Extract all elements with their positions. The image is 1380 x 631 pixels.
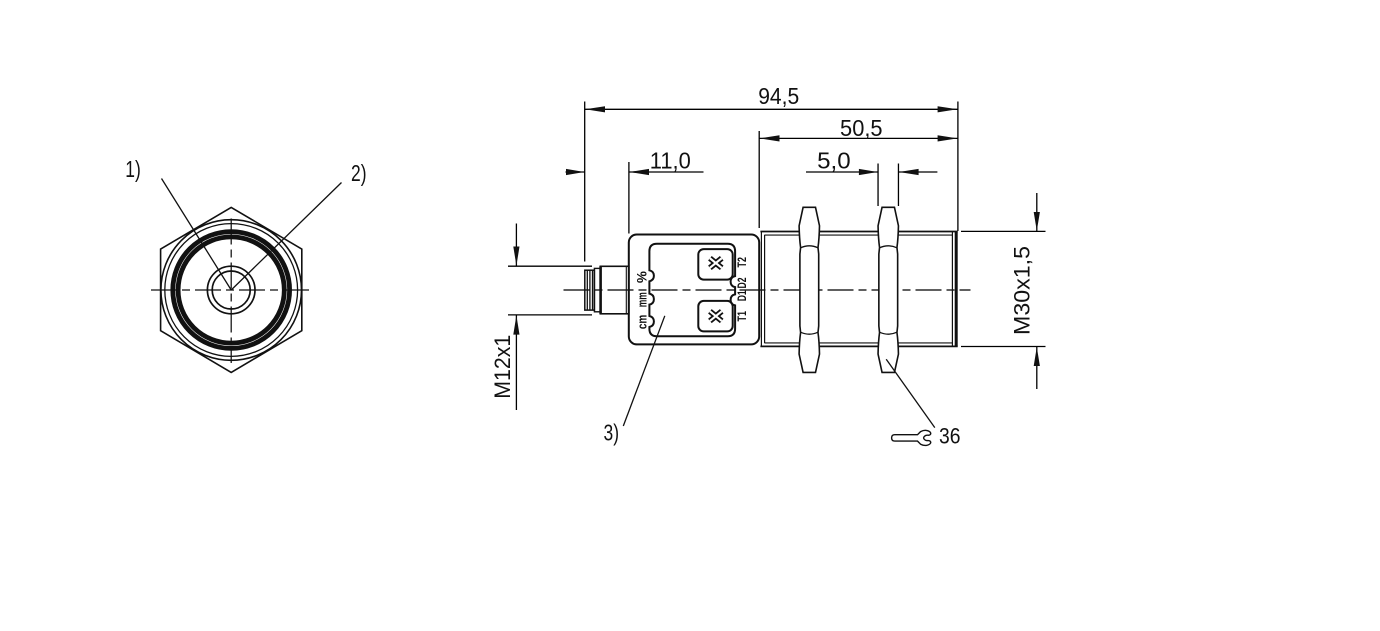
button 2 X symbol: [710, 311, 722, 321]
barrel bottom edge: [760, 345, 957, 347]
dim 50,5 line: [759, 137, 958, 139]
dim 11,0 tail right: [629, 171, 704, 173]
connector body inner line: [625, 266, 627, 314]
dim 94,5 right extension line: [957, 102, 959, 232]
arrow 11,0 right (points left): [629, 169, 649, 175]
barrel left step lines: [760, 232, 762, 346]
arrow 50,5 right: [938, 135, 958, 141]
dim M12x1 bottom extension line: [508, 314, 592, 316]
thread root line top: [765, 234, 953, 236]
leader line 2: [231, 183, 341, 291]
transducer ring inner: [178, 237, 284, 343]
arrow 5,0 left (points right): [859, 169, 878, 175]
dim 94,5 line: [585, 108, 958, 110]
connector tip ridges: [586, 270, 588, 310]
arrow M30x1,5 top (points down): [1034, 212, 1040, 231]
small circle outer: [207, 266, 255, 314]
centerline vertical: [230, 219, 232, 364]
svg-text:11,0: 11,0: [650, 147, 691, 173]
svg-text:3): 3): [604, 420, 620, 446]
arrow 94,5 left: [585, 106, 605, 112]
svg-text:T1: T1: [735, 311, 749, 322]
transducer ring outer: [173, 232, 290, 349]
arrow 94,5 right: [938, 106, 958, 112]
svg-text:D1: D1: [735, 290, 749, 301]
svg-text:5,0: 5,0: [817, 147, 851, 173]
dim M30x1,5 line top: [1036, 193, 1038, 231]
button 1 X symbol: [710, 258, 722, 268]
arrow 11,0 left (points right): [566, 169, 584, 175]
svg-text:M30x1,5: M30x1,5: [1010, 246, 1035, 335]
arrow M12x1 top (points down): [513, 247, 519, 266]
arrow M30x1,5 bottom (points up): [1034, 347, 1040, 366]
svg-text:2): 2): [351, 160, 367, 186]
dim 5,0 tail left: [806, 171, 878, 173]
wrench icon: [892, 430, 931, 445]
svg-text:D2: D2: [735, 277, 749, 288]
svg-text:36: 36: [939, 424, 961, 449]
svg-text:94,5: 94,5: [758, 83, 799, 109]
dim M12x1 top extension line: [508, 265, 592, 267]
svg-text:T2: T2: [735, 257, 749, 268]
hex nut 1 (side view): [799, 207, 819, 372]
outer thread circle: [161, 220, 302, 361]
dim 94,5 left extension line: [584, 102, 586, 262]
leader line 1: [162, 179, 232, 291]
barrel top edge: [760, 231, 957, 233]
dim 5,0 tail right: [899, 171, 938, 173]
dim M30x1,5 bottom extension line: [961, 346, 1046, 348]
arrow 50,5 left: [760, 135, 780, 141]
hex nut outline: [161, 207, 302, 372]
dim M30x1,5 line bottom: [1036, 347, 1038, 390]
dim 11,0 right extension line: [628, 162, 630, 234]
dim M30x1,5 top extension line: [961, 230, 1046, 232]
svg-text:M12x1: M12x1: [490, 335, 515, 399]
svg-text:mm: mm: [635, 292, 650, 307]
dim M12x1 line bottom: [515, 315, 517, 410]
thread root line bottom: [765, 342, 953, 344]
centerline: [564, 289, 971, 291]
chamfer circle: [165, 224, 298, 357]
dim 5,0 left extension line: [877, 164, 879, 207]
dim M12x1 line top: [515, 224, 517, 267]
leader line 3: [623, 316, 665, 426]
dim 5,0 right extension line: [897, 164, 899, 207]
small circle inner: [212, 271, 250, 309]
nut 1 facet arcs: [801, 246, 818, 334]
nut 2 facet arcs: [880, 246, 897, 334]
arrow M12x1 bottom (points up): [513, 315, 519, 334]
svg-text:1): 1): [125, 156, 141, 182]
barrel right end lines: [951, 232, 953, 346]
svg-text:50,5: 50,5: [840, 115, 883, 141]
wrench leader line: [886, 359, 935, 427]
display panel with scalloped edges: [649, 244, 735, 336]
svg-text:%: %: [634, 271, 650, 284]
centerline horizontal: [151, 289, 311, 291]
arrow 5,0 right (points left): [899, 169, 919, 175]
dim 50,5 left extension line: [758, 131, 760, 228]
connector body: [600, 266, 629, 314]
button 2: [698, 301, 732, 332]
button 1: [698, 249, 732, 280]
svg-text:cm: cm: [635, 315, 650, 330]
sensor head housing: [629, 235, 759, 345]
M12 connector tip: [585, 270, 595, 310]
hex nut 2 (side view): [878, 207, 898, 372]
connector collar: [594, 268, 600, 311]
dim 11,0 tail left: [566, 171, 585, 173]
